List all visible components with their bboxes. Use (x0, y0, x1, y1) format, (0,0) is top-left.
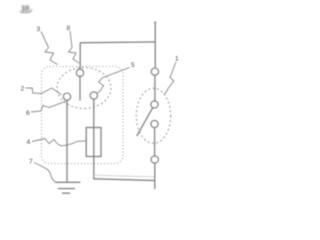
ground symbol (55, 182, 80, 193)
svg-text:6: 6 (26, 110, 30, 117)
svg-text:1: 1 (175, 56, 179, 63)
wire: left drop from top wire to switch common terminal (79, 43, 81, 70)
top wire (80, 41, 155, 44)
node: lower terminal circle on right branch (151, 156, 158, 163)
dashed ellipse around changeover switch (57, 68, 111, 109)
label 10 (figure reference, top-left) (20, 3, 32, 12)
node: right throw terminal (90, 92, 97, 99)
dotted enclosure box 3 (42, 67, 124, 164)
svg-text:3: 3 (37, 26, 41, 33)
svg-text:5: 5 (131, 62, 135, 69)
wire: right throw terminal down to resistor (93, 99, 95, 179)
leader line 3 (41, 32, 58, 65)
leader line 8 (69, 31, 80, 63)
node: switch 1 upper contact (151, 101, 158, 108)
bottom rail wire (94, 179, 155, 181)
switch arm (pole, hanging down) (79, 76, 81, 100)
wire: switch 1 lower contact down (154, 128, 156, 156)
svg-text:8: 8 (67, 25, 71, 32)
node: switch 1 lower contact (151, 120, 158, 127)
svg-text:4: 4 (27, 139, 31, 146)
leader line 6 (31, 101, 66, 112)
leader line 5 (97, 68, 130, 94)
wire: between upper terminal and switch 1 (154, 75, 156, 101)
svg-text:7: 7 (29, 159, 33, 166)
right vertical wire top stub (154, 23, 156, 69)
wire: lower terminal to bottom rail and stub (154, 163, 156, 189)
svg-text:2: 2 (21, 86, 25, 93)
leader line 7 (34, 163, 56, 183)
leader line 2 (26, 88, 62, 95)
dashed ellipse around switch 1 (136, 88, 170, 143)
resistor R (box) (86, 128, 101, 157)
wire: left throw terminal down to ground (66, 100, 68, 182)
leader line 4 (32, 139, 86, 146)
node: left throw terminal (63, 93, 70, 100)
dot at top of right wire (154, 21, 156, 23)
switch 1 arm (open, swung down-left) (137, 108, 153, 136)
node: upper terminal circle on right branch (151, 68, 158, 75)
leader line 1 (165, 62, 177, 95)
svg-text:10: 10 (21, 3, 29, 12)
node: switch common terminal (top circle) (76, 69, 83, 76)
